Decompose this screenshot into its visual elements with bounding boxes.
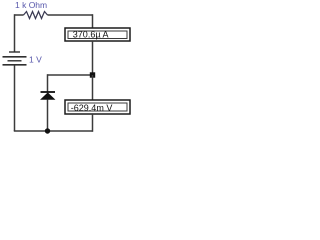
- junction at ammeter/voltmeter/diode node: [90, 72, 95, 77]
- wire: left vertical from battery down to bottom rail: [14, 66, 16, 132]
- wire: from ammeter bottom to junction: [92, 41, 94, 75]
- wire: horizontal from junction to diode branch: [48, 74, 93, 76]
- wire: bottom horizontal rail: [14, 130, 93, 132]
- battery plate long: [3, 56, 27, 58]
- svg-text:370.6µ A: 370.6µ A: [73, 29, 109, 39]
- diode D1: [41, 92, 56, 100]
- background: [0, 0, 133, 144]
- wire: top horizontal from resistor to right corner: [48, 14, 93, 16]
- diode anode triangle: [41, 93, 55, 100]
- diode cathode bar: [41, 91, 56, 93]
- wire: from voltmeter bottom to bottom-right corner: [92, 114, 94, 132]
- resistor R1: [24, 12, 48, 19]
- svg-text:1 V: 1 V: [29, 55, 42, 65]
- wire: from diode anode down to bottom rail: [47, 100, 49, 132]
- junction at diode/bottom rail: [45, 128, 50, 133]
- wire: top-left horizontal from battery corner to resistor: [15, 14, 24, 16]
- battery V1: [3, 52, 27, 65]
- wire: vertical from horizontal branch down to diode cathode: [47, 74, 49, 92]
- wire: from junction down to voltmeter: [92, 75, 94, 100]
- wire: right vertical from top corner into ammeter: [92, 14, 94, 28]
- battery plate short top: [9, 51, 20, 53]
- svg-text:-629.4m V: -629.4m V: [71, 103, 113, 113]
- ammeter U1 (370.6µ A): [65, 28, 130, 41]
- battery plate long bottom: [3, 64, 27, 66]
- voltmeter U2 (-629.4m V): [65, 100, 130, 114]
- battery plate short middle: [8, 60, 22, 62]
- svg-text:1 k Ohm: 1 k Ohm: [15, 0, 47, 10]
- wire: left vertical from top corner down to battery: [14, 14, 16, 51]
